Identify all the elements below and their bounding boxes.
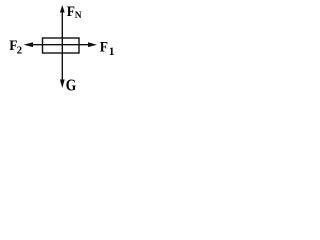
svg-text:F: F <box>100 40 108 56</box>
arrow F_N head <box>60 5 65 13</box>
arrow F_1 head <box>88 42 97 47</box>
wire vertical axis <box>61 12 63 80</box>
svg-text:1: 1 <box>109 46 115 58</box>
svg-text:F: F <box>67 4 75 20</box>
svg-text:2: 2 <box>17 45 23 57</box>
svg-text:G: G <box>66 76 77 95</box>
arrow G head <box>60 80 65 89</box>
box (object) <box>43 38 80 53</box>
wire horizontal axis <box>33 44 89 46</box>
svg-text:N: N <box>75 11 82 21</box>
arrow F_2 head <box>24 42 34 47</box>
